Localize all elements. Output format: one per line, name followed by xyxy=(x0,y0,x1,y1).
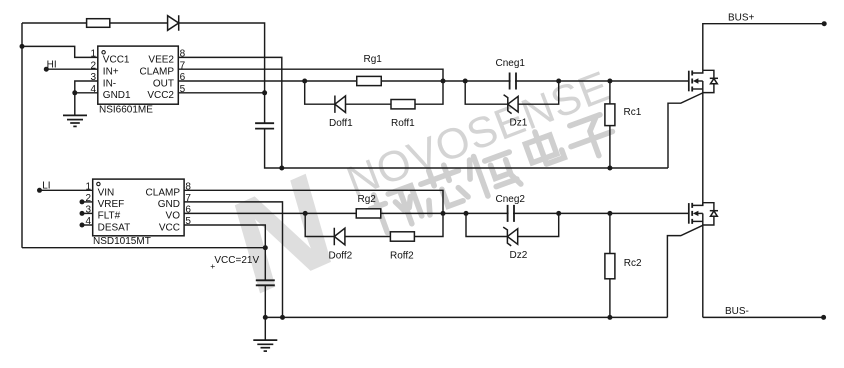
svg-text:3: 3 xyxy=(85,205,91,216)
capacitor Cneg2 xyxy=(508,205,514,222)
svg-text:1: 1 xyxy=(85,182,91,193)
transistor Q1 channel segments xyxy=(691,71,693,92)
zener diode Dz2 xyxy=(503,227,511,246)
node VEE rail left junction xyxy=(279,166,284,171)
svg-text:VCC1: VCC1 xyxy=(103,55,130,66)
svg-text:FLT#: FLT# xyxy=(98,211,121,222)
resistor R bootstrap xyxy=(87,19,110,28)
node VCC2 junction xyxy=(262,90,267,95)
transistor Q2 channel segments xyxy=(691,203,693,224)
svg-text:GND1: GND1 xyxy=(103,90,131,101)
diode D bootstrap xyxy=(168,15,179,31)
wire Dz1 branch xyxy=(465,81,559,104)
wire kelvin to Q2 source xyxy=(667,225,702,317)
wire CLAMP to output node xyxy=(178,69,443,81)
svg-text:DESAT: DESAT xyxy=(98,222,131,233)
svg-text:BUS-: BUS- xyxy=(725,306,749,317)
transistor Q2 gate bar xyxy=(688,203,690,224)
wire VCC supply left rail xyxy=(21,23,23,248)
ground symbol input side xyxy=(63,115,87,126)
svg-text:Dz2: Dz2 xyxy=(510,250,528,261)
svg-text:1: 1 xyxy=(90,49,96,60)
wire Rc1 bottom stub xyxy=(609,126,611,168)
svg-text:NSI6601ME: NSI6601ME xyxy=(99,105,153,116)
node Rc1 rail junction xyxy=(607,166,612,171)
node GND2 rail junction xyxy=(280,315,285,320)
capacitor VCC2 decoupling xyxy=(264,93,266,123)
wire VREF stub xyxy=(82,201,93,203)
svg-text:LI: LI xyxy=(42,181,50,192)
node LI input terminal xyxy=(37,188,42,193)
wire VCC2 pin to cap xyxy=(178,92,264,94)
svg-text:4: 4 xyxy=(85,216,91,227)
wire FLT# stub xyxy=(82,212,93,214)
wire Roff1 to right bracket xyxy=(415,81,443,104)
wire VEE rail xyxy=(282,167,668,169)
wire VCC1 branch xyxy=(22,46,98,57)
wire Rg2 lower branch left bracket xyxy=(305,213,334,236)
wire Doff1 to Roff1 xyxy=(346,103,392,105)
node Rc1 top junction xyxy=(607,79,612,84)
node Cneg1 right junction xyxy=(556,79,561,84)
transistor Q2 source stub xyxy=(692,220,703,222)
node HI input terminal xyxy=(44,67,49,72)
resistor Roff1 xyxy=(391,100,415,109)
node VREF stub terminal xyxy=(80,199,85,204)
svg-text:3: 3 xyxy=(90,72,96,83)
wire bootstrap top segment to resistor xyxy=(22,22,87,24)
wire phase node Q1 source to Q2 drain xyxy=(702,93,704,206)
wire HI to IN+ xyxy=(46,68,98,70)
node gate2 net junction xyxy=(441,211,446,216)
capacitor VCC bulk xyxy=(264,248,266,280)
wire IN- to GND1 junction xyxy=(75,81,98,93)
resistor Roff2 xyxy=(390,232,414,241)
diode Doff1 xyxy=(335,96,346,113)
svg-text:VCC=21V: VCC=21V xyxy=(214,255,259,266)
transistor Q1 body arrow xyxy=(693,78,699,83)
node DESAT stub terminal xyxy=(80,223,85,228)
svg-text:Rc1: Rc1 xyxy=(624,107,642,118)
svg-text:Doff2: Doff2 xyxy=(329,251,353,262)
node VCC 21V junction xyxy=(263,245,268,250)
svg-text:Doff1: Doff1 xyxy=(329,118,353,129)
svg-text:HI: HI xyxy=(47,60,57,71)
node Cneg2 left junction xyxy=(464,211,469,216)
wire resistor to diode xyxy=(110,22,168,24)
node FLT# stub terminal xyxy=(80,211,85,216)
ground symbol supply xyxy=(253,340,277,351)
node Rg1 left junction xyxy=(302,79,307,84)
wire VCC=21V feed xyxy=(22,247,265,249)
svg-text:Rg1: Rg1 xyxy=(364,54,383,65)
wire Dz2 branch xyxy=(466,213,559,236)
svg-text:VEE2: VEE2 xyxy=(148,55,174,66)
wire GND1 to ground xyxy=(74,93,76,116)
transistor Q1 gate bar xyxy=(688,71,690,92)
svg-text:VIN: VIN xyxy=(98,188,115,199)
wire diode to VCC2 node xyxy=(179,23,265,93)
IC U1 NSI6601ME body xyxy=(98,46,179,104)
svg-text:NSD1015MT: NSD1015MT xyxy=(93,236,151,247)
wire BUS+ rail xyxy=(703,23,824,25)
node Rg2 left junction xyxy=(303,211,308,216)
svg-text:Cneg2: Cneg2 xyxy=(496,194,526,205)
wire VEE kelvin to Q1 source xyxy=(668,93,703,168)
svg-text:VCC2: VCC2 xyxy=(147,90,174,101)
node GND1 junction xyxy=(72,90,77,95)
zener diode Dz1 xyxy=(504,95,512,114)
node BUS- terminal xyxy=(821,315,826,320)
diode Doff2 xyxy=(334,228,345,245)
svg-text:4: 4 xyxy=(90,84,96,95)
wire Rg1 lower branch left bracket xyxy=(305,81,335,104)
svg-text:GND: GND xyxy=(158,199,180,210)
wire VO gate drive main xyxy=(184,212,689,214)
U1 pin1 indicator xyxy=(102,51,105,54)
svg-text:CLAMP: CLAMP xyxy=(140,67,175,78)
resistor Rc1 xyxy=(605,104,615,126)
svg-text:VCC: VCC xyxy=(159,222,180,233)
wire Roff2 to right bracket xyxy=(414,213,443,236)
wire Rc1 top stub xyxy=(609,81,611,104)
wire cap to ground symbol xyxy=(264,317,266,340)
svg-text:OUT: OUT xyxy=(153,78,174,89)
U2 pin1 indicator xyxy=(97,182,100,185)
resistor Rc2 xyxy=(605,254,615,279)
transistor Q1 source column xyxy=(702,81,704,93)
svg-text:+: + xyxy=(210,261,215,271)
node gate net junction xyxy=(441,79,446,84)
wire BUS- rail xyxy=(703,316,824,318)
wire GND2 to ground rail xyxy=(184,202,282,318)
svg-text:Roff1: Roff1 xyxy=(391,118,415,129)
transistor Q1 source stub xyxy=(692,88,703,90)
svg-text:Roff2: Roff2 xyxy=(390,251,414,262)
diode Q1 body diode xyxy=(703,70,714,78)
capacitor Cneg1 xyxy=(510,73,516,90)
resistor Rg2 xyxy=(356,209,381,218)
node VCC1 branch junction xyxy=(20,44,25,49)
svg-text:BUS+: BUS+ xyxy=(728,12,755,23)
svg-text:2: 2 xyxy=(90,60,96,71)
node ground rail cap junction xyxy=(263,315,268,320)
svg-text:Dz1: Dz1 xyxy=(510,118,528,129)
transistor Q2 body arrow xyxy=(693,211,699,216)
node Cneg1 left junction xyxy=(463,79,468,84)
node BUS+ terminal xyxy=(822,21,827,26)
wire GND1 pin xyxy=(75,92,98,94)
svg-text:CLAMP: CLAMP xyxy=(146,188,181,199)
wire Rc2 top stub xyxy=(609,213,611,253)
wire LI to VIN xyxy=(40,189,93,191)
svg-text:Rc2: Rc2 xyxy=(624,258,642,269)
node Cneg2 right junction xyxy=(556,211,561,216)
wire OUT gate drive main xyxy=(178,80,689,82)
svg-text:IN-: IN- xyxy=(103,78,116,89)
wire Q1 drain to BUS+ xyxy=(702,23,704,70)
diode Q2 body diode xyxy=(703,203,714,211)
node Rc2 top junction xyxy=(607,211,612,216)
wire Cneg1 plates gap mask xyxy=(511,78,515,84)
svg-text:Cneg1: Cneg1 xyxy=(496,58,526,69)
svg-text:Rg2: Rg2 xyxy=(358,194,377,205)
wire Rc2 bottom stub xyxy=(609,279,611,318)
wire ground rail xyxy=(265,316,667,318)
node Rc2 rail junction xyxy=(607,315,612,320)
resistor Rg1 xyxy=(357,76,382,85)
svg-text:IN+: IN+ xyxy=(103,67,119,78)
svg-text:2: 2 xyxy=(85,193,91,204)
wire Doff2 to Roff2 xyxy=(345,236,391,238)
wire VCC pin to VCC node xyxy=(184,225,265,248)
IC U2 NSD1015MT body xyxy=(93,179,184,236)
wire VEE2 to VEE rail xyxy=(178,57,281,168)
svg-text:VREF: VREF xyxy=(98,199,125,210)
transistor Q1 drain stub xyxy=(692,70,703,73)
transistor Q2 drain stub xyxy=(692,203,703,206)
wire CLAMP2 to output node xyxy=(184,190,443,213)
wire DESAT stub xyxy=(82,224,93,226)
transistor Q2 source column xyxy=(702,213,704,317)
svg-text:VO: VO xyxy=(166,211,181,222)
